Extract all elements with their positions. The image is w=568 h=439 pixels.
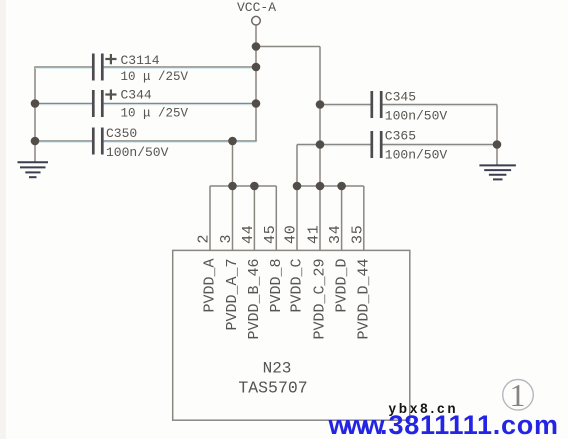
wire: pin stub 35 <box>363 186 365 250</box>
svg-text:PVDD_B_46: PVDD_B_46 <box>246 259 263 340</box>
pin label PVDD_A <box>202 259 219 313</box>
watermark ybx8.cn <box>389 401 459 416</box>
pin label PVDD_8 <box>268 259 285 313</box>
node: junction right rail row5 <box>493 140 502 149</box>
wire: pin stub 34 <box>341 186 343 250</box>
svg-text:C3114: C3114 <box>121 53 160 68</box>
wire: pin stub 41 <box>319 186 321 250</box>
pin number 40 <box>283 224 300 244</box>
pin number 34 <box>327 224 344 244</box>
node: junction at VCC tee <box>252 42 261 51</box>
wire: row5 left segment (feed corner to C365) <box>297 145 371 146</box>
node: junction right pin bus pin41 <box>316 182 325 191</box>
wire: right pin bus y=186 <box>297 185 364 187</box>
svg-text:PVDD_C_29: PVDD_C_29 <box>312 259 329 340</box>
pin label PVDD_A_7 <box>224 259 241 331</box>
svg-text:44: 44 <box>240 224 257 244</box>
svg-text:PVDD_A_7: PVDD_A_7 <box>224 259 241 331</box>
node: junction row1/bus <box>252 63 261 72</box>
pin number 35 <box>349 224 366 244</box>
svg-text:www.: www. <box>328 410 388 439</box>
wire: pin stub 2 <box>209 186 211 250</box>
svg-text:C365: C365 <box>385 129 416 144</box>
svg-text:PVDD_D_44: PVDD_D_44 <box>356 259 373 340</box>
wire: top link 256-320 at y=46.5 <box>256 46 320 48</box>
node: junction left bus row3 <box>31 137 40 146</box>
svg-text:TAS5707: TAS5707 <box>238 379 307 398</box>
pin label PVDD_D <box>333 259 350 313</box>
terminal circle VCC-A <box>252 16 261 25</box>
wire: right bus x=320 down to pin bus <box>319 47 321 187</box>
capacitor C344 <box>93 88 188 121</box>
svg-text:C344: C344 <box>121 88 152 103</box>
capacitor C3114 <box>93 53 188 84</box>
node: junction right pin bus pin40 <box>293 182 302 191</box>
svg-text:10 μ /25V: 10 μ /25V <box>121 107 189 121</box>
capacitor C350 <box>93 126 168 160</box>
wire: VCC-A vertical bus x=256 <box>255 25 257 141</box>
svg-text:3: 3 <box>218 234 235 243</box>
node: junction row4 right bus <box>316 100 325 109</box>
pin number 3 <box>218 234 235 243</box>
wire: row4 left segment (bus to C345) <box>320 105 371 106</box>
wire: row2 right segment (C344 to bus) <box>104 104 256 105</box>
svg-text:PVDD_C: PVDD_C <box>289 259 306 313</box>
wire: pin stub 3 <box>232 186 234 250</box>
svg-text:PVDD_D: PVDD_D <box>333 259 350 313</box>
node: junction left bus row2 <box>31 99 40 108</box>
svg-text:C350: C350 <box>106 126 137 141</box>
wire: left pin bus y=186 <box>210 185 276 187</box>
node: junction row5 right bus <box>316 140 325 149</box>
watermark www.3811111.com <box>328 410 559 439</box>
wire: feed x=297 down to right pin bus <box>296 145 298 187</box>
svg-text:VCC-A: VCC-A <box>237 0 276 15</box>
node: junction left pin bus pin44 <box>250 182 259 191</box>
ground (left) <box>18 162 49 177</box>
IC N23 TAS5707 <box>173 250 410 420</box>
svg-text:2: 2 <box>196 234 213 243</box>
svg-text:34: 34 <box>327 224 344 244</box>
svg-text:10 μ /25V: 10 μ /25V <box>121 70 189 84</box>
svg-text:N23: N23 <box>263 360 292 378</box>
svg-text:3811111.com: 3811111.com <box>389 410 559 439</box>
node: junction row3 feed <box>228 137 237 146</box>
wire: row3 left segment (C350) <box>34 141 92 142</box>
wire: left bus vertical x=35 <box>34 67 36 162</box>
capacitor C365 <box>372 129 448 163</box>
pin number 45 <box>262 224 279 244</box>
wire: right ground rail x=497 <box>496 105 498 166</box>
node: junction right pin bus pin34 <box>337 182 346 191</box>
pin label PVDD_D_44 <box>356 259 373 340</box>
pin label PVDD_C <box>289 259 306 313</box>
ground (right) <box>479 165 516 179</box>
svg-text:45: 45 <box>262 224 279 244</box>
pin number 2 <box>196 234 213 243</box>
svg-text:40: 40 <box>283 224 300 244</box>
svg-text:100n/50V: 100n/50V <box>385 147 448 162</box>
wire: row1 left segment (C3114) <box>34 67 92 68</box>
wire: row2 left segment (C344) <box>34 104 92 105</box>
capacitor C345 <box>372 90 448 124</box>
wire: pin stub 40 <box>296 186 298 250</box>
svg-text:1: 1 <box>510 377 526 413</box>
svg-text:PVDD_A: PVDD_A <box>202 259 219 313</box>
wire: pin stub 45 <box>275 186 277 250</box>
node: junction left pin bus pin3 <box>228 182 237 191</box>
node: junction row2/bus <box>252 99 261 108</box>
wire: row3 right segment (C350 to bus corner) <box>104 141 257 142</box>
pin number 44 <box>240 224 257 244</box>
svg-text:100n/50V: 100n/50V <box>106 145 169 160</box>
pin label PVDD_B_46 <box>246 259 263 340</box>
wire: row5 right segment (C365 to right rail) <box>382 145 497 146</box>
svg-text:35: 35 <box>349 224 366 244</box>
pin label PVDD_C_29 <box>312 259 329 340</box>
wire: row1 right segment (C3114 to bus) <box>104 67 256 68</box>
node VCC-A label <box>237 0 276 15</box>
wire: feed x=232.5 from row3 down to left pin bus <box>232 141 234 186</box>
pin number 41 <box>306 224 323 244</box>
figure number circled 1 <box>503 377 534 413</box>
svg-text:C345: C345 <box>385 90 416 105</box>
svg-text:41: 41 <box>306 224 323 244</box>
svg-text:PVDD_8: PVDD_8 <box>268 259 285 313</box>
wire: row4 right segment (C345 to right rail) <box>382 105 497 106</box>
svg-text:100n/50V: 100n/50V <box>385 108 448 123</box>
wire: pin stub 44 <box>253 186 255 250</box>
